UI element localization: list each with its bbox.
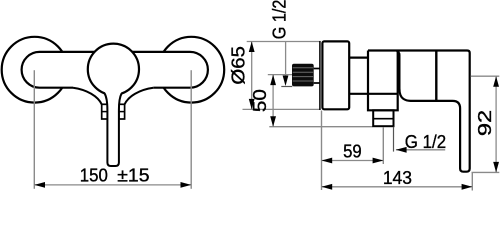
extension line 92 bottom [472,171,500,173]
right tab mid line [119,111,125,113]
mixer body stadium fill (front view) [22,52,208,88]
extension line outlet right edge [393,127,395,152]
arrow Ø65 down [249,99,255,110]
extension line right circle center [190,70,192,189]
svg-text:50: 50 [249,89,270,112]
svg-text:59: 59 [343,141,362,162]
dimension line Ø65 [251,42,253,110]
arrow G 1/2 top [283,76,289,87]
arrow 143 right [462,184,473,190]
knurl bottom reference line [281,86,292,88]
cartridge housing box (side view) [368,51,398,111]
50 top extension line (pipe centre line) [268,74,293,76]
svg-text:150: 150 [80,165,108,186]
left tab mid line [102,111,108,113]
wall flange line [319,41,321,110]
neck top edge [349,56,368,58]
mixer body stadium outline with bottom gap at lever [22,52,208,88]
dimension line 150 [34,184,191,186]
svg-text:143: 143 [383,167,412,188]
arrow 92 up [493,76,499,87]
svg-text:G 1/2: G 1/2 [268,0,289,39]
arrow 150 left [34,182,45,188]
cap joint vertical line [435,51,437,101]
outlet mid line [373,118,393,120]
arrow 92 down [493,162,499,173]
left body fillet to lever boss [73,88,102,105]
knurled wall nut (side view) [292,64,314,87]
nut stem bottom line [314,82,321,84]
cartridge dome circle (front view) [88,44,139,95]
arrow G 1/2 bottom [396,147,407,153]
extension line 92 top [471,75,500,77]
right escutcheon circle (front view) [158,37,224,103]
Ø65 top extension line [247,41,321,43]
arrow Ø65 up [249,42,255,53]
escutcheon plate (side view) [322,41,349,109]
right body fillet to lever boss [125,88,154,105]
dimension line 59 [322,160,384,162]
extension line outlet centre [382,127,384,164]
leader line G 1/2 bottom [396,149,445,151]
body bottom edge across neck and cartridge box [349,93,398,95]
knurl ridge lines [293,68,313,81]
arrow 50 down [270,116,276,127]
arrow 143 left [322,184,333,190]
dimension line 50 [272,75,274,127]
nut stem top line [314,68,321,70]
white mask over dome circle bottom arc [105,92,121,99]
svg-text:Ø65: Ø65 [228,46,249,85]
svg-text:G 1/2: G 1/2 [405,131,446,152]
dimension line 143 [322,186,473,188]
extension line lever tip [471,173,473,191]
lever stem with flared neck (front view) [105,93,122,166]
50 bottom extension line [269,126,372,128]
arrow 150 right [181,182,192,188]
svg-text:±15: ±15 [117,165,149,186]
right lever boss tab [119,104,125,119]
svg-text:92: 92 [474,110,495,136]
arrow 59 right [373,158,384,164]
left lever boss tab [102,104,108,119]
arrow 59 left [322,158,333,164]
extension line wall plane [321,111,323,191]
Ø65 bottom extension line [243,108,321,110]
leader line G 1/2 top [285,41,287,77]
body top edge, handle cap, lever blade and underside [368,51,470,172]
outlet boss (side view) [373,110,393,126]
left escutcheon circle (front view) [2,37,68,103]
extension line left circle center [33,70,35,189]
dimension line 92 [495,76,497,172]
arrow 50 up [270,75,276,86]
